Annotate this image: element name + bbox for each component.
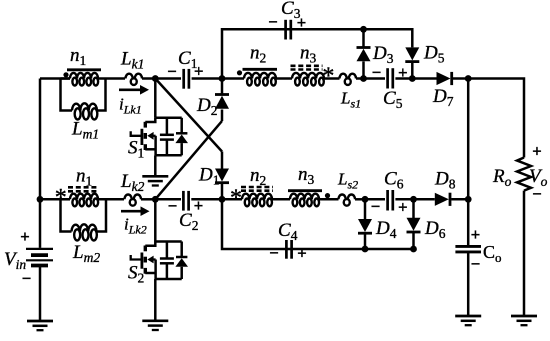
winding n3 (row 2) xyxy=(290,194,319,207)
svg-text:−: − xyxy=(268,13,278,32)
wire D5 cathode stub xyxy=(411,62,414,79)
wire C2 to middle node xyxy=(191,198,222,201)
transistor S2 (MOSFET with body diode and parallel capacitor) xyxy=(131,199,188,279)
wire D8 to output vertical xyxy=(451,198,468,201)
wire n2-n3 row2 xyxy=(272,198,290,201)
diode D1 xyxy=(215,169,229,183)
svg-text:−: − xyxy=(167,62,177,81)
node row1 middle xyxy=(219,75,226,82)
wire D7 to output node xyxy=(453,77,469,80)
wire node to D2 cathode xyxy=(221,79,224,95)
svg-text:−: − xyxy=(269,244,279,263)
wire row2 left stub xyxy=(40,198,70,201)
wire output vertical xyxy=(467,79,470,246)
capacitor C2 xyxy=(183,191,188,211)
winding n1 (row 1) xyxy=(70,73,98,86)
wire Ls1 to D3 node xyxy=(356,77,364,80)
wire to n2 row1 xyxy=(222,77,244,80)
node row1 / D5 xyxy=(409,75,416,82)
ground (Ro) xyxy=(511,316,537,325)
wire n2-n3 row1 xyxy=(276,77,292,80)
core bar n1 (row1, solid) xyxy=(67,68,101,71)
wire S2 source to ground xyxy=(154,279,157,321)
node row2 / D6 xyxy=(410,196,417,203)
node row2 middle xyxy=(219,196,226,203)
capacitor C4 xyxy=(286,240,291,259)
capacitor Co xyxy=(455,246,481,252)
wire Lm2 left leg xyxy=(61,199,72,231)
ground (S1) xyxy=(142,176,168,185)
inductor Lm2 coil xyxy=(72,224,97,240)
inductor Ls2 xyxy=(339,195,356,206)
wire Co to ground xyxy=(467,252,470,316)
core bar n2 (row2, dashed) xyxy=(241,187,273,191)
transistor S1 (MOSFET with body diode and parallel capacitor) xyxy=(131,79,188,156)
winding n3 (row 1) xyxy=(292,73,324,86)
svg-text:*: * xyxy=(230,186,242,212)
wire n3 to Ls1 xyxy=(324,77,340,80)
wire D4 cathode to C4 line xyxy=(364,233,367,249)
core bar n3 (row2, solid) xyxy=(288,189,322,192)
current arrow iLk2 xyxy=(121,206,150,216)
wire left vertical (Vin rail) xyxy=(39,79,42,248)
wire to n2 row2 xyxy=(222,198,242,201)
wire D4 node to C6 xyxy=(365,198,385,201)
wire top rail to Ro xyxy=(468,79,524,158)
svg-text:*: * xyxy=(322,64,334,90)
svg-text:−: − xyxy=(372,63,382,82)
diode D3 xyxy=(357,48,371,62)
wire C6 to D6 node xyxy=(395,198,413,201)
node row1 / D3 xyxy=(360,75,367,82)
wire diagonal node1 to D1 xyxy=(155,79,222,152)
wire C1 to middle node xyxy=(192,77,222,80)
ground (Co) xyxy=(455,316,481,325)
winding n1 (row 2) xyxy=(70,194,98,207)
diode D7 xyxy=(437,72,452,85)
ground (Vin) xyxy=(27,321,53,330)
node output mid xyxy=(465,196,472,203)
wire S1 source to ground xyxy=(154,155,157,176)
svg-text:+: + xyxy=(471,225,481,244)
wire Lm1 left leg xyxy=(61,79,73,111)
wire D6 node to D8 xyxy=(414,198,435,201)
node Vin-row2 junction xyxy=(37,196,44,203)
core bar n1 (row2, dashed) xyxy=(68,187,99,191)
ground (S2) xyxy=(142,321,168,330)
inductor Lm1 coil xyxy=(72,103,97,119)
resistor Ro (zigzag) xyxy=(517,158,531,191)
wire diagonal node2 to D2 xyxy=(155,121,222,199)
current arrow iLk1 xyxy=(119,85,149,95)
wire D1 cathode to row2 node xyxy=(221,184,224,200)
svg-text:−: − xyxy=(532,185,542,204)
wire n3 to Ls2 xyxy=(319,198,339,201)
svg-text:−: − xyxy=(471,255,481,274)
node switch-node 2 xyxy=(152,196,159,203)
diode D8 xyxy=(435,193,450,206)
diode D5 xyxy=(405,47,419,61)
wire n1 to Lk2 xyxy=(98,198,124,201)
svg-text:−: − xyxy=(168,197,178,216)
svg-text:+: + xyxy=(532,142,542,161)
svg-text:+: + xyxy=(297,244,307,263)
wire D6 cathode to C4 line xyxy=(412,232,415,249)
capacitor C5 xyxy=(388,68,393,88)
wire D3 anode stub xyxy=(362,61,365,78)
wire C3 branch top run xyxy=(222,29,412,78)
wire node1 to C1 xyxy=(155,77,181,80)
inductor Lk1 xyxy=(126,74,143,85)
wire C4 line right part xyxy=(365,248,414,251)
diode D4 xyxy=(358,219,372,233)
wire diagonal to D1 anode xyxy=(221,152,224,170)
wire Lm2 right leg xyxy=(97,199,107,231)
core bar n3 (row1, dashed) xyxy=(291,66,323,70)
voltage source Vin (battery) xyxy=(26,249,53,266)
core bar n2 (row1, solid) xyxy=(243,68,278,71)
polarity dot n3 (row2) xyxy=(325,193,330,198)
wire n1 to Lk1 xyxy=(98,77,125,80)
wire Lm1 right leg xyxy=(97,79,106,111)
wire xyxy=(61,77,71,80)
wire C3 line to D3 cathode xyxy=(362,29,365,47)
wire xyxy=(61,198,71,201)
node C4-line / D6 xyxy=(410,246,417,253)
wire Vin to ground xyxy=(39,266,42,321)
wire row1 left stub xyxy=(40,77,70,80)
wire D4 anode stub xyxy=(364,199,367,219)
node C3-line / D3 xyxy=(360,26,367,33)
capacitor C6 xyxy=(388,190,393,211)
inductor Lk2 xyxy=(125,195,142,206)
capacitor C3 xyxy=(286,20,291,40)
diode D2 xyxy=(215,95,229,109)
wire Ls2 to D4 node xyxy=(355,198,365,201)
svg-text:−: − xyxy=(371,197,381,216)
polarity dot n1 (row1) xyxy=(63,72,68,77)
wire C5 to D5 node xyxy=(395,77,412,80)
wire D6 anode stub xyxy=(412,199,415,218)
wire D3 node to C5 xyxy=(364,77,386,80)
svg-text:+: + xyxy=(20,227,30,246)
node switch-node 1 xyxy=(152,75,159,82)
node output top xyxy=(465,75,472,82)
wire Lk2 to node2 xyxy=(141,198,155,201)
wire D2 anode stub xyxy=(221,110,224,122)
wire node2 to C2 xyxy=(155,198,181,201)
polarity dot n2 (row1) xyxy=(237,70,242,75)
inductor Ls1 xyxy=(340,74,357,85)
capacitor C1 xyxy=(184,69,189,89)
winding n2 (row 2) xyxy=(242,194,272,207)
node C4-line / D4 xyxy=(362,246,369,253)
diode D6 xyxy=(407,218,421,232)
wire C4 branch bottom run xyxy=(222,199,365,249)
wire D5 node to D7 xyxy=(412,77,436,80)
node row2 / D4 xyxy=(362,196,369,203)
wire Lk1 to node1 xyxy=(142,77,155,80)
wire Ro to ground xyxy=(523,191,526,316)
winding n2 (row 1) xyxy=(244,73,276,86)
